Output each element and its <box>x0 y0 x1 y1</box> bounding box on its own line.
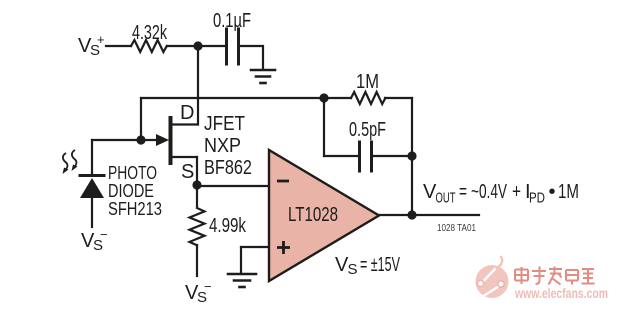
node C2 right junction dot <box>407 151 416 160</box>
watermark logo elecfans <box>476 256 509 298</box>
wire C1 to ground <box>240 46 263 68</box>
wire feedback horizontal <box>141 97 324 99</box>
wire feedback left rail <box>323 98 325 156</box>
wire C2 right lead <box>373 155 412 157</box>
svg-text:LT1028: LT1028 <box>288 204 338 226</box>
wire gate <box>92 139 157 141</box>
JFET Q1 gate arrow <box>156 134 169 146</box>
JFET Q1 gate bar <box>169 118 173 163</box>
resistor R3 1M body <box>351 92 385 104</box>
JFET Q1 source lead <box>171 156 197 158</box>
wire drain rail <box>197 46 199 125</box>
wire source to op-amp minus input <box>197 185 269 187</box>
op-amp U1 LT1028 <box>269 150 379 281</box>
wire right rail <box>411 98 413 215</box>
wire photodiode branch <box>91 140 93 174</box>
svg-text:D: D <box>180 102 194 124</box>
wire feedback vertical to gate <box>140 98 142 140</box>
wire R2 to VS- <box>196 245 198 276</box>
svg-text:S: S <box>181 161 194 183</box>
wire to R3 <box>324 97 351 99</box>
capacitor C2 0.5pF plates <box>358 142 361 171</box>
wire VS+ lead <box>106 45 131 47</box>
ground symbol G1 <box>251 69 275 72</box>
svg-text:−: − <box>204 279 212 294</box>
photodiode D1 cathode bar <box>80 174 104 177</box>
svg-text:+: + <box>512 181 521 203</box>
svg-text:1M: 1M <box>356 71 379 93</box>
wire C2 left lead <box>324 155 358 157</box>
node feedback left junction dot <box>319 93 328 102</box>
svg-text:•: • <box>549 181 556 203</box>
svg-text:0.5pF: 0.5pF <box>349 119 386 141</box>
light arrow 2 <box>72 150 77 168</box>
svg-text:S: S <box>348 261 358 278</box>
watermark chinese text <box>515 267 595 285</box>
resistor R1 4.32k body <box>131 40 167 52</box>
svg-text:1028 TA01: 1028 TA01 <box>437 223 476 234</box>
node source junction dot <box>192 180 201 189</box>
svg-text:PD: PD <box>529 191 545 207</box>
wire plus input to ground <box>240 247 242 272</box>
light arrow 1 <box>63 153 68 171</box>
svg-text:~0.4V: ~0.4V <box>471 181 507 203</box>
wire R3 to right rail <box>385 97 412 99</box>
ground symbol G2 <box>228 273 256 276</box>
svg-text:1M: 1M <box>558 181 579 203</box>
svg-text:JFET: JFET <box>204 113 245 135</box>
node A junction dot <box>193 41 202 50</box>
node gate junction dot <box>136 135 145 144</box>
svg-text:−: − <box>100 227 108 242</box>
svg-text:PHOTO: PHOTO <box>108 163 157 183</box>
op-amp minus symbol <box>277 180 289 183</box>
op-amp plus symbol <box>277 241 290 254</box>
svg-text:BF862: BF862 <box>204 157 252 179</box>
resistor R2 4.99k body <box>190 208 205 245</box>
svg-text:DIODE: DIODE <box>108 181 154 201</box>
svg-text:SFH213: SFH213 <box>108 199 162 219</box>
svg-text:NXP: NXP <box>204 135 241 157</box>
svg-text:OUT: OUT <box>436 191 456 207</box>
wire op-amp plus input <box>241 246 269 248</box>
svg-text:+: + <box>97 32 105 47</box>
node output junction dot <box>407 210 416 219</box>
JFET Q1 drain lead <box>171 123 197 125</box>
svg-text:=: = <box>459 181 467 203</box>
svg-text:4.32k: 4.32k <box>132 22 168 44</box>
svg-text:www.elecfans.com: www.elecfans.com <box>514 286 608 301</box>
wire source to R2 <box>196 185 198 206</box>
wire photodiode anode lead <box>91 198 93 227</box>
wire R1 to node A <box>167 45 225 47</box>
wire output <box>379 214 479 216</box>
svg-text:0.1µF: 0.1µF <box>213 10 251 32</box>
photodiode D1 triangle <box>80 178 104 198</box>
wire source vertical <box>196 157 198 185</box>
capacitor C1 0.1uF plates <box>225 29 228 64</box>
svg-text:4.99k: 4.99k <box>209 215 247 237</box>
svg-text:= ±15V: = ±15V <box>360 254 400 276</box>
